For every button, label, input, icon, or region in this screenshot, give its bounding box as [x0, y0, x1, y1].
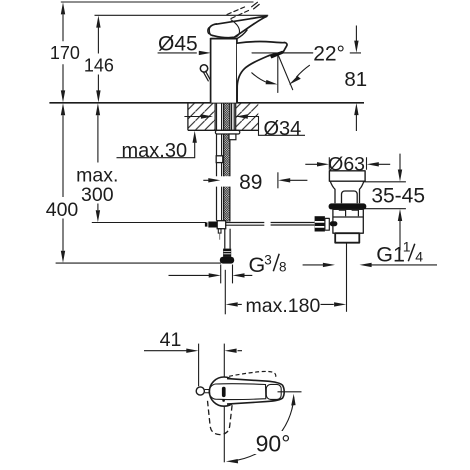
reference line bottom of pop-up rod (max.300) — [92, 222, 206, 224]
pop-up rod lower faint end — [219, 233, 221, 240]
dimension 89 arrows — [208, 178, 290, 182]
dimension 400 arrows — [61, 103, 65, 263]
svg-text:Ø34: Ø34 — [264, 118, 302, 140]
lever cap line — [211, 38, 237, 40]
drain knurled nut — [315, 216, 325, 231]
dimension max.30 arrow — [193, 131, 197, 143]
dimension 400 line — [62, 115, 64, 251]
81/22° reference line segment over spout — [252, 52, 313, 54]
drain clamp screws — [339, 210, 359, 216]
dimension 81 line — [355, 26, 357, 132]
dimension G 1 1/4 arrows — [323, 263, 372, 267]
clamp screw — [205, 222, 217, 228]
top view: lever front face detail — [266, 384, 281, 399]
22° label leader with arrow — [297, 65, 310, 77]
threaded shank walls in deck — [232, 103, 235, 134]
top view: dimension 41 line — [144, 350, 242, 352]
dimension G 3/8 arrows — [209, 273, 245, 277]
pop-up rod knob — [200, 65, 207, 72]
supply hose braided section walls — [224, 103, 230, 222]
drain body — [333, 209, 363, 233]
dimension Ø63 arrows — [317, 162, 379, 166]
reference line bottom of supply hose (400) — [56, 262, 221, 264]
svg-text:170: 170 — [50, 43, 80, 63]
horizontal pop-up linkage rod — [226, 223, 315, 226]
top view: pop-up rod knob — [196, 387, 204, 395]
svg-text:300: 300 — [81, 184, 114, 206]
drain body separation line — [333, 216, 363, 218]
reference line top of lever (146) — [95, 14, 269, 16]
dimension max.300 arrows — [96, 103, 100, 222]
dimension max.30 leader with underline — [117, 143, 195, 158]
dimension Ø45 arrows — [199, 51, 250, 55]
supply hose end flange G 3/8 — [220, 257, 234, 264]
drain seal washer (black) — [329, 203, 367, 209]
svg-text:max.180: max.180 — [246, 295, 321, 317]
pop-up rod clamp block — [217, 221, 226, 229]
svg-text:Ø45: Ø45 — [158, 33, 198, 56]
top view: swung lever phantom (dashed) — [208, 401, 233, 435]
drain flange taper and neck — [330, 181, 364, 203]
pop-up rod lower stub — [218, 229, 221, 233]
mounting nut — [229, 134, 236, 140]
basin deck hatched section right — [236, 103, 259, 131]
top view: faucet body circle — [209, 377, 238, 406]
spout back edge notch — [237, 30, 247, 38]
supply hose lower section walls — [225, 229, 230, 249]
svg-text:1: 1 — [403, 238, 411, 254]
top view: dimension 41 arrows — [186, 349, 236, 353]
basin deck hatched section left — [188, 103, 215, 131]
supply hose braided section — [224, 103, 230, 176]
dimension 35-45 arrows — [398, 170, 402, 222]
90° swivel arc — [233, 398, 294, 461]
22° vertical reference line — [277, 56, 279, 93]
dimension 170 line — [62, 14, 64, 90]
dimension 170 arrows — [61, 2, 65, 102]
dimension max.180 arrows — [226, 302, 347, 306]
top view: lever dot mark — [222, 399, 225, 402]
dimension G 1 1/4 line — [303, 264, 437, 266]
dimension Ø34 arrows — [201, 114, 248, 118]
dimension 146 line — [97, 28, 99, 91]
drain centre line — [346, 243, 348, 312]
top view: vertical centre line lower — [223, 406, 225, 462]
dimension 146 arrows — [96, 16, 100, 103]
drain pivot pin — [330, 221, 338, 226]
top view: horizontal centre line — [278, 391, 302, 393]
mounting washer — [215, 130, 239, 134]
svg-text:146: 146 — [84, 55, 114, 75]
dimension Ø63 line — [305, 163, 390, 165]
dimension 89 extension tick — [277, 172, 279, 188]
basin deck left edge — [187, 103, 189, 131]
svg-text:4: 4 — [415, 248, 423, 264]
top view: knob connector ticks — [205, 390, 210, 393]
svg-text:41: 41 — [160, 329, 182, 351]
lever front lip detail — [208, 27, 210, 33]
drain ball joint block — [325, 218, 329, 230]
drain tailpiece G 1 1/4 — [335, 233, 359, 243]
top view: lever fill — [225, 379, 284, 405]
90° arc arrows — [226, 394, 296, 464]
top view: lever outline — [227, 379, 284, 405]
svg-text:G: G — [249, 253, 266, 277]
reference line top of raised lever (170) — [61, 1, 254, 3]
svg-text:89: 89 — [239, 171, 262, 194]
svg-text:400: 400 — [46, 199, 79, 221]
svg-text:81: 81 — [344, 68, 367, 91]
dimension 35-45 reference lines — [362, 182, 406, 209]
drain flange upper block — [329, 171, 365, 181]
faucet mounting hole right wall — [235, 103, 237, 131]
lever surface detail curve — [231, 20, 240, 37]
dimension Ø45 / 22° / 81 shared reference line — [158, 52, 361, 54]
dimension 89 line — [203, 179, 307, 181]
top view: lever dark mark — [222, 387, 226, 397]
label 90° background — [252, 431, 294, 454]
faucet body — [211, 39, 237, 103]
svg-text:8: 8 — [279, 260, 287, 275]
22° slanted stream line — [279, 56, 293, 90]
svg-text:3: 3 — [264, 252, 272, 267]
spout aerator — [270, 51, 284, 59]
drain pop-up plug head — [342, 191, 358, 203]
dimension G 3/8 line — [169, 274, 253, 276]
svg-text:max.30: max.30 — [122, 140, 188, 162]
dimension Ø63 extension ticks — [329, 157, 366, 170]
top view: dimension 41 extension line (knob centre) — [198, 344, 200, 387]
top view: lever inner contour — [209, 384, 266, 400]
raised lever phantom (dashed) — [227, 7, 249, 19]
pop-up rod tube in shank — [217, 103, 222, 221]
dimension max.180 line — [238, 303, 334, 305]
dimension max.180 extension line left (faucet centre) — [224, 270, 226, 315]
dimension Ø34 line — [184, 117, 305, 136]
faucet mounting hole left wall — [214, 103, 216, 131]
22° swivel arc with arrow — [252, 73, 268, 83]
svg-text:22°: 22° — [313, 42, 345, 65]
deck surface line — [49, 102, 364, 104]
svg-text:90°: 90° — [256, 431, 291, 457]
faucet lever — [209, 16, 267, 37]
top view: vertical centre line upper — [223, 344, 225, 378]
faucet spout — [237, 42, 287, 103]
svg-text:G1: G1 — [376, 242, 405, 266]
raised lever tip mark — [252, 2, 260, 9]
hose union fitting on pop-up rod — [216, 156, 223, 163]
svg-text:35-45: 35-45 — [371, 185, 425, 208]
top view: raised lever phantom (dashed) — [229, 371, 276, 377]
supply hose hex nut — [223, 249, 231, 257]
svg-text:Ø63: Ø63 — [328, 153, 365, 175]
dimension 35-45 line — [399, 154, 401, 251]
dimension max.300 line — [97, 115, 99, 210]
pop-up rod upper section — [203, 71, 210, 81]
basin deck bottom line — [188, 129, 259, 131]
dimension 81 arrows — [354, 41, 358, 116]
dimension G 3/8 extension lines — [221, 265, 233, 284]
